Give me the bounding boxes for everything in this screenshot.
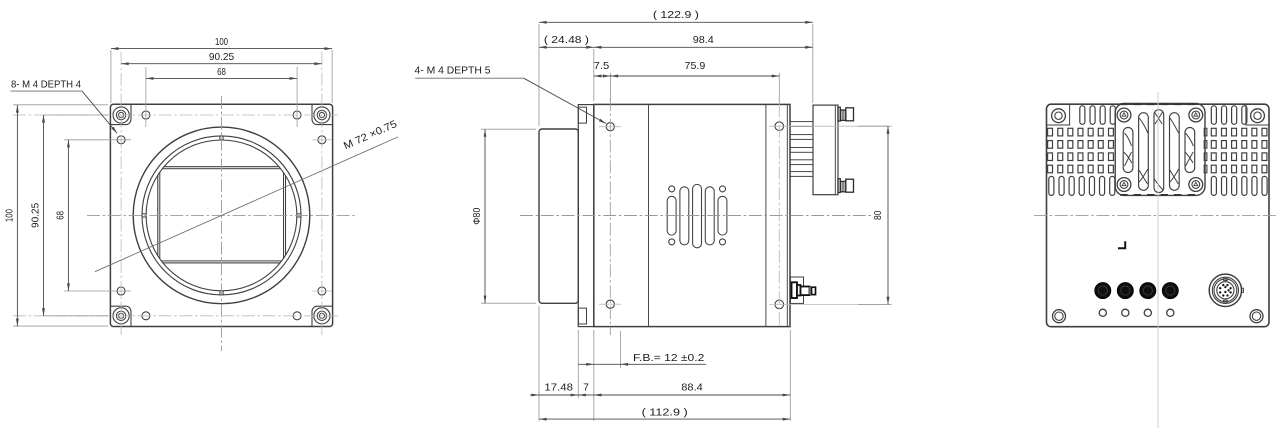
rear view: horizontal centerline [1034, 215, 1277, 217]
rear view: fan recess hidden dashes bottom [1120, 194, 1200, 196]
side view: rear plate screw hole bottom [775, 300, 784, 309]
front view: M4 hole (left/right column) [318, 136, 326, 144]
svg-text:( 112.9 ): ( 112.9 ) [642, 407, 688, 418]
side view: 80 extension lines [858, 125, 892, 127]
front view: corner tab bottom-right [312, 306, 333, 326]
front view: corner tab top-right [312, 104, 333, 124]
rear view: right bottom vent slots [1211, 176, 1216, 195]
front view: hole B centerlines to 68 dim [64, 139, 131, 141]
front view: lens thread inner circle [146, 140, 297, 291]
rear view: right vent half squares at fan plate edge [1204, 128, 1207, 136]
side view: top extension lines [538, 24, 540, 126]
svg-text:( 122.9 ): ( 122.9 ) [653, 10, 699, 21]
front view: M4 hole (left/right column) [318, 287, 326, 295]
rear view: top-right screw box [1246, 104, 1269, 125]
rear view: connector pins [1230, 291, 1232, 293]
rear view: right vent square grid [1211, 128, 1216, 136]
dimension 7 side bottom [578, 394, 594, 396]
svg-text:80: 80 [873, 210, 884, 220]
rear view: fan torx screw [1189, 178, 1203, 192]
dimension 17.48 side bottom [539, 394, 578, 396]
front view: counterbore mounting screw corner [113, 107, 129, 123]
side view: flange step notch top [578, 107, 586, 123]
dimension 90.25 front top [121, 63, 322, 65]
rear view: fan slots [1123, 128, 1133, 173]
dimension 88.4 side bottom [594, 394, 791, 396]
front view: horizontal centerline [87, 214, 356, 216]
side view: main body outline [594, 104, 790, 326]
dimension 100 front left vertical [16, 105, 18, 326]
side view: front plate M4 hole bottom [606, 300, 614, 308]
front view: extension lines top dims [110, 50, 112, 103]
rear view: back panel outline [1047, 104, 1270, 327]
rear view: corner screw bottom-left [1053, 310, 1066, 323]
rear view: right top vent slots [1211, 106, 1216, 125]
svg-text:68: 68 [217, 67, 226, 78]
svg-text:90.25: 90.25 [31, 203, 42, 228]
front view: lens thread outer circle M72 [142, 136, 301, 295]
side view: hole horizontal centerlines [599, 126, 621, 128]
rear view: fan torx screw [1117, 178, 1131, 192]
svg-text:90.25: 90.25 [209, 52, 234, 63]
front view: M4 hole (left/right column) [117, 136, 125, 144]
side view: front hole vertical centerline [609, 98, 611, 335]
rear view: corner screw top-left [1052, 109, 1066, 123]
front view: M4 hole (left/right column) [117, 287, 125, 295]
front view: corner tab top-left [110, 104, 131, 124]
rear view: orientation L mark [1118, 241, 1125, 248]
svg-text:F.B.= 12 ±0.2: F.B.= 12 ±0.2 [633, 353, 705, 364]
rear view: corner screw top-right [1251, 109, 1265, 123]
front view: thread tick marks N S E W [219, 136, 221, 140]
rear view: indicator connectors black row [1095, 283, 1111, 299]
svg-text:7.5: 7.5 [594, 61, 610, 72]
rear view: multi-pin circular connector [1209, 274, 1241, 306]
rear view: fan plate [1115, 104, 1205, 196]
dimension 80 side right vertical [887, 126, 889, 304]
dimension 7.5 side [594, 75, 611, 77]
side view: vent corner holes [669, 186, 675, 192]
side view: bottom extension lines [538, 306, 540, 421]
dimension 68 front top [146, 77, 297, 79]
front view: counterbore mounting screw corner [113, 308, 129, 324]
side view: front plate M4 hole top [606, 123, 614, 131]
side view: thumbscrew connector top [838, 107, 840, 121]
side view: bottom coax connector with bracket [791, 277, 804, 303]
front view: M4 hole (top/bottom row) [293, 111, 301, 119]
label M 72 x0.75 with diagonal leader [95, 137, 398, 272]
rear view: vertical centerline [1157, 92, 1159, 428]
svg-text:8- M 4 DEPTH 4: 8- M 4 DEPTH 4 [11, 79, 81, 90]
front view: vertical centerline [221, 96, 223, 351]
side view: thumbscrew connector bottom [838, 179, 840, 193]
rear view: top-left screw box [1047, 104, 1070, 125]
svg-text:( 24.48 ): ( 24.48 ) [544, 35, 589, 46]
side view: vent slots [667, 196, 676, 235]
rear view: fan blade curves [1125, 133, 1132, 146]
side view: dia80 extension lines [481, 128, 536, 130]
svg-text:88.4: 88.4 [681, 383, 703, 394]
svg-text:17.48: 17.48 [544, 383, 573, 394]
rear view: left top vent slots [1080, 106, 1085, 125]
dimension 90.25 front left vertical [43, 115, 45, 316]
front view: hole centerlines [120, 52, 122, 335]
side view: rear connector block [813, 105, 838, 195]
side view: body joint line rear [765, 104, 767, 326]
svg-text:7: 7 [583, 383, 589, 394]
dimension (24.48) side [539, 46, 594, 48]
rear view: left bottom vent slots [1049, 176, 1054, 195]
dimension (122.9) side top [539, 21, 813, 23]
side view: body joint line front [648, 104, 650, 326]
svg-text:68: 68 [55, 211, 66, 220]
front view: corner tab bottom-left [110, 306, 131, 326]
side view: heat sink fins [790, 122, 813, 127]
side view: flange step notch bottom [578, 308, 586, 324]
dimension 68 front left vertical [67, 140, 69, 291]
rear view: fan torx screw [1117, 108, 1131, 122]
side view: rear plate screw hole top [775, 122, 784, 131]
front view: counterbore mounting screw corner [314, 107, 330, 123]
svg-text:Φ80: Φ80 [472, 208, 483, 225]
svg-text:100: 100 [4, 209, 15, 222]
side view: front flange plate [578, 105, 594, 327]
dimension 100 front top [111, 48, 332, 50]
front view: M4 hole (top/bottom row) [293, 312, 301, 320]
dimension 98.4 side [594, 46, 813, 48]
rear view: corner screw bottom-right [1250, 310, 1263, 323]
dimension F.B.= 12 +-0.2 [579, 363, 707, 365]
side view: rear hole vertical centerline [778, 104, 780, 327]
rear view: fan recess hidden dashes top [1120, 103, 1200, 105]
dimension 75.9 side [611, 75, 780, 77]
dimension (112.9) side bottom [539, 418, 790, 420]
svg-text:100: 100 [215, 37, 228, 48]
front view: M4 hole (top/bottom row) [142, 312, 150, 320]
dimension dia80 side left vertical [484, 129, 486, 303]
rear view: small holes row [1099, 309, 1106, 316]
side view: rear edge inner line [786, 104, 788, 326]
front view: counterbore mounting screw corner [314, 308, 330, 324]
front view: lens mount outer circle dia80 barrel [133, 127, 310, 304]
svg-text:98.4: 98.4 [693, 35, 714, 46]
front view: extension lines left dims [13, 104, 108, 106]
front view: M4 hole (top/bottom row) [142, 111, 150, 119]
svg-text:75.9: 75.9 [685, 61, 706, 72]
front view: camera front face outline [110, 104, 332, 326]
rear view: left vent square grid [1048, 128, 1053, 136]
side view: lens barrel cylinder [539, 129, 578, 303]
side view: horizontal centerline [520, 215, 872, 217]
svg-text:4- M 4 DEPTH 5: 4- M 4 DEPTH 5 [415, 66, 491, 77]
rear view: fan torx screw [1189, 108, 1203, 122]
